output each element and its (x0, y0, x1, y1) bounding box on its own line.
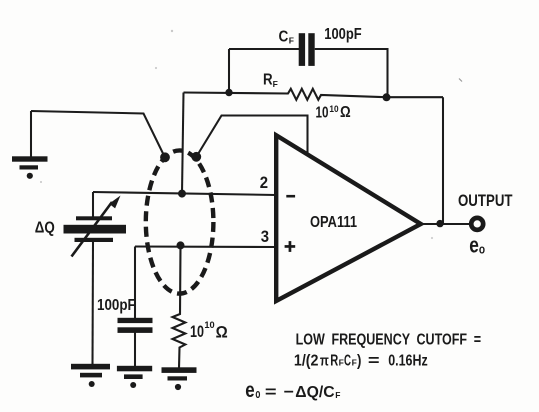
wire G1 to guard shield left contact (31, 111, 165, 157)
ground G3 (under C2) (117, 366, 152, 388)
svg-text:10: 10 (204, 320, 214, 331)
svg-text:1/(2: 1/(2 (294, 353, 319, 370)
plus sign (285, 241, 296, 252)
svg-text:OPA111: OPA111 (310, 214, 357, 231)
svg-text:Ω: Ω (340, 104, 351, 121)
wire op-amp output (421, 223, 469, 225)
svg-text:o: o (479, 241, 485, 256)
wire G1 riser (30, 111, 32, 157)
source dQ transducer (64, 196, 127, 257)
wire node A riser to CF (228, 49, 230, 93)
formula cutoff value line (294, 353, 428, 370)
svg-text:F: F (289, 36, 294, 46)
svg-text:C: C (344, 353, 351, 370)
node A junction dot (CF/RF left) (225, 89, 232, 96)
minus sign (286, 195, 295, 198)
svg-text:100pF: 100pF (97, 297, 136, 314)
ground G4 (under R2) (162, 367, 197, 390)
svg-text:=: = (368, 353, 380, 370)
wire inverting input (pin 2) (93, 192, 276, 195)
label R2 value 10^10 ohm (190, 320, 228, 341)
svg-text:π: π (320, 354, 329, 370)
op-amp U1 OPA111 triangle (276, 135, 421, 301)
wire feedback to output node (442, 97, 444, 223)
wire non-inverting input (pin 3) (135, 245, 276, 248)
capacitor CF (299, 33, 315, 66)
node inverting junction dot (178, 190, 186, 198)
node output junction dot (436, 220, 443, 227)
svg-text:R: R (263, 72, 273, 89)
svg-text:LOW FREQUENCY CUTOFF =: LOW FREQUENCY CUTOFF = (296, 331, 481, 349)
output terminal ring (471, 218, 483, 230)
svg-text:10: 10 (190, 323, 204, 341)
ground G1 (upper left) (12, 156, 48, 179)
svg-text:o: o (255, 387, 260, 401)
guard shield contact dot (right) (191, 152, 201, 162)
label RF value 10^10 ohm (316, 104, 351, 122)
scan speck (171, 30, 173, 32)
svg-text:e: e (245, 378, 254, 402)
scan speck (431, 237, 433, 239)
guard shield (dashed ellipse) (146, 150, 214, 293)
svg-text:100pF: 100pF (324, 26, 361, 43)
svg-text:OUTPUT: OUTPUT (458, 192, 513, 210)
formula eo equation (245, 378, 340, 402)
svg-text:): ) (357, 353, 361, 370)
svg-text:0.16Hz: 0.16Hz (388, 353, 428, 370)
svg-text:Ω: Ω (216, 323, 228, 342)
svg-text:3: 3 (261, 227, 269, 246)
svg-text:ΔQ: ΔQ (35, 220, 55, 237)
scan speck (155, 67, 157, 69)
wire guard shield right contact to op-amp case (197, 116, 308, 157)
scan speck (40, 181, 42, 183)
svg-text:2: 2 (260, 173, 268, 192)
svg-text:ΔQ/C: ΔQ/C (295, 384, 335, 401)
svg-text:−: − (284, 384, 294, 401)
node B junction dot (CF/RF right) (383, 93, 391, 101)
node non-inverting junction dot (177, 241, 185, 249)
wire dQ bottom to ground G2 (91, 242, 94, 365)
scan speck (459, 79, 462, 82)
svg-text:=: = (265, 384, 277, 401)
wire CF top left segment (229, 48, 300, 50)
svg-text:F: F (335, 390, 340, 400)
label eo (469, 233, 485, 258)
wire CF top right segment (315, 49, 388, 97)
wire node A down to inverting input (182, 93, 184, 194)
wire 100pF riser (134, 247, 136, 319)
svg-text:10: 10 (329, 104, 338, 115)
wire C2 to ground G3 (134, 333, 136, 367)
svg-text:10: 10 (316, 104, 329, 121)
svg-text:e: e (469, 233, 479, 258)
wire dQ top riser (92, 192, 94, 217)
resistor R2 10^10 ohm (input) with wires (173, 246, 186, 369)
svg-text:R: R (330, 353, 338, 370)
guard shield contact dot (left) (160, 152, 170, 162)
ground G2 (under dQ) (71, 364, 110, 387)
svg-text:F: F (273, 79, 278, 89)
svg-text:C: C (279, 29, 289, 46)
capacitor C2 100pF (input) (118, 318, 153, 333)
resistor RF with wire (184, 89, 444, 100)
